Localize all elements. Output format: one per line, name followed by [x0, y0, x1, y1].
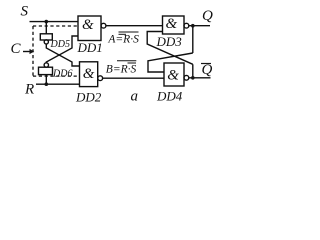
NAND gate DD1: [78, 16, 101, 41]
svg-text:&: &: [167, 67, 179, 83]
node Q junction: [191, 24, 195, 28]
pin DD6 output bubble: [44, 63, 48, 67]
NAND gate DD2: [80, 62, 98, 87]
wire dashed clock to DD2: [33, 75, 80, 77]
NAND gate DD3: [163, 16, 185, 34]
svg-text:&: &: [83, 66, 95, 82]
svg-text:&: &: [166, 16, 178, 32]
wire B: DD2 output to DD4 input: [103, 77, 164, 79]
pin DD5 output bubble: [44, 40, 48, 44]
node S junction: [45, 20, 49, 24]
svg-text:DD6: DD6: [52, 69, 72, 80]
wire Qbar output: [189, 77, 211, 79]
wire S to DD5 input: [45, 22, 47, 34]
pin DD2 output bubble: [98, 76, 103, 81]
wire Q output: [189, 25, 210, 27]
wire dashed clock to DD1: [33, 25, 78, 27]
wire Qbar feedback diagonal to DD3: [147, 32, 193, 65]
wire DD6 output to crossing: [46, 36, 78, 63]
svg-text:Q: Q: [202, 62, 213, 78]
wire R input: [36, 83, 80, 85]
label formula A: [107, 32, 139, 45]
svg-text:DD5: DD5: [50, 39, 70, 50]
inverter DD6: [39, 67, 53, 74]
node Qbar junction: [191, 76, 195, 80]
wire DD5 output to crossing: [46, 44, 79, 66]
wire A: DD1 output to DD3 input: [106, 25, 163, 27]
svg-text:C: C: [11, 41, 22, 57]
wire Qbar feedback vertical: [192, 64, 194, 78]
pin DD1 output bubble: [101, 23, 106, 28]
wire dashed clock vertical: [32, 26, 34, 76]
svg-text:R: R: [24, 82, 34, 98]
node R junction: [45, 82, 49, 86]
label formula B: [106, 61, 137, 76]
pin DD3 output bubble: [184, 23, 189, 28]
wire C clock line: [23, 51, 31, 53]
arrowhead C: [30, 49, 35, 54]
svg-text:B=R·S: B=R·S: [106, 63, 137, 75]
wire R to DD6 input: [45, 75, 47, 85]
wire Q feedback vertical: [192, 26, 194, 53]
svg-text:DD1: DD1: [77, 40, 103, 55]
pin DD4 output bubble: [184, 75, 189, 80]
svg-text:S: S: [21, 4, 29, 20]
NAND gate DD4: [164, 63, 184, 86]
wire Q feedback diagonal to DD4: [148, 53, 193, 72]
svg-text:DD2: DD2: [75, 90, 102, 105]
svg-text:а: а: [131, 89, 139, 105]
svg-text:DD4: DD4: [156, 89, 183, 104]
svg-text:Q: Q: [202, 8, 213, 24]
svg-text:&: &: [82, 17, 94, 33]
wire S input: [30, 21, 79, 23]
svg-text:A=R·S: A=R·S: [107, 33, 139, 45]
inverter DD5: [40, 34, 52, 40]
svg-text:DD3: DD3: [156, 34, 183, 49]
